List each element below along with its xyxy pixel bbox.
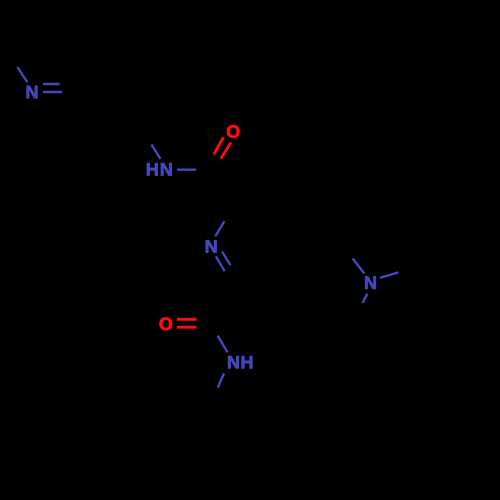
bond C=O1 double, line 2 O-side half — [221, 143, 231, 159]
bond C=O2 double, top line O-side half (right of O2) — [177, 318, 197, 321]
atom label N of amide HN — [161, 163, 172, 175]
bond N1=C2 double, main line N-side half (right) — [43, 91, 62, 93]
atom label N of amide NH — [228, 356, 239, 368]
bond C-N3, N-side half (up-left of N3) — [353, 259, 365, 274]
bond N2=C double, inner line N-side half — [222, 252, 230, 266]
atom label O2 (lower carbonyl oxygen) — [160, 317, 173, 330]
bond N(amide)-CH, N-side half (down-left of NH) — [218, 373, 224, 387]
bond N3-CH3, N-side half (right of N3) — [380, 272, 399, 277]
bond C5-N1 single, N-side half (up-left) — [17, 67, 27, 82]
bond C=O2 double, bottom line O-side half — [177, 326, 197, 329]
atom label H of amide HN — [147, 163, 158, 175]
bond C=O1 double, line 1 O-side half — [214, 137, 224, 154]
bond N(amide)-C(=O), N-side half (right of HN) — [177, 168, 196, 170]
bond CH2-N(amide), N-side half (above HN) — [152, 145, 161, 160]
atom label O1 (upper carbonyl oxygen) — [227, 125, 240, 138]
atom label H of amide NH — [242, 356, 253, 368]
bond N2-C single, N-side half (up-right) — [215, 221, 224, 236]
bond C(=O)-N(amide), N-side half (up-left of NH) — [218, 336, 228, 353]
bond N2=C double, main line N-side half (down-right) — [216, 256, 225, 271]
bond N1=C2 double, inner line N-side half — [43, 83, 60, 85]
atom label N2 (central pyridine nitrogen) — [206, 240, 217, 252]
atom label N3 (tertiary amine nitrogen, right) — [365, 276, 376, 288]
atom label N1 (pyridine nitrogen, top-left) — [27, 86, 38, 98]
bond N3-C, N-side half (down-left of N3) — [363, 294, 368, 303]
